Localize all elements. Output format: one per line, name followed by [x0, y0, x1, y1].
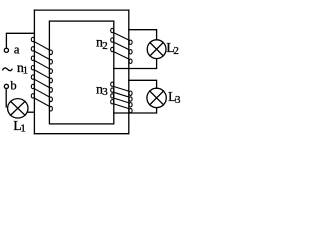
winding n2 (secondary top, on right leg): [111, 28, 132, 63]
wire L3 bottom: [114, 108, 157, 113]
winding n1 left-side turn bumps: [31, 37, 34, 98]
core (transformer iron core rectangle): [49, 21, 113, 124]
winding n2 bumps on right bus wire: [129, 40, 132, 63]
lamp L3: [147, 88, 166, 107]
winding n3 bumps on right bus wire: [129, 91, 132, 113]
terminal b: [4, 84, 8, 88]
wire top (n1 top to bus): [34, 9, 128, 11]
lamp L1: [8, 99, 28, 118]
lamp L2: [147, 40, 166, 59]
winding n2 bumps on core edge: [111, 28, 114, 51]
svg-text:1: 1: [20, 123, 26, 135]
svg-text:a: a: [14, 43, 20, 57]
wire terminal a to winding: [6, 33, 34, 48]
wire lamp L1 to winding: [27, 111, 34, 113]
winding n3 turn diagonals: [114, 87, 129, 109]
svg-text:3: 3: [175, 94, 181, 106]
wire L2 top: [129, 30, 157, 40]
wire n1 left line: [33, 10, 35, 134]
svg-text:1: 1: [23, 65, 29, 77]
wire right bus: [128, 10, 130, 113]
wire L2 bottom: [114, 59, 157, 69]
winding n1 right-side turn bumps on core edge: [49, 50, 52, 111]
winding n1 (primary, on left leg): [31, 37, 52, 111]
winding n3 (secondary bottom, on right leg): [111, 82, 132, 113]
wire terminal b to lamp L1: [5, 89, 7, 108]
svg-text:2: 2: [102, 40, 108, 52]
label ~ (AC source tilde): [3, 68, 13, 71]
winding n3 bumps on core edge: [111, 82, 114, 104]
terminal a: [4, 48, 8, 52]
svg-text:3: 3: [102, 86, 108, 98]
wire L3 top: [129, 80, 157, 88]
svg-text:2: 2: [173, 45, 179, 57]
winding n1 turn diagonals: [34, 42, 49, 107]
svg-text:b: b: [10, 79, 16, 93]
wire bottom: [34, 113, 128, 134]
winding n2 turn diagonals: [114, 33, 129, 59]
